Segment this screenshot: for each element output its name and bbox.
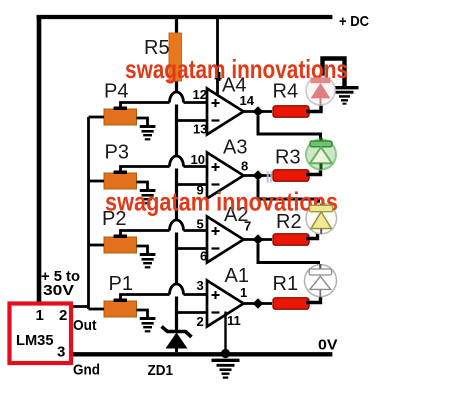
wire left supply rail <box>37 15 42 302</box>
svg-text:2: 2 <box>59 307 67 324</box>
ghost watermark fragment <box>267 171 272 182</box>
wire P1 wiper to pin 3 with hop <box>121 295 208 301</box>
svg-text:1: 1 <box>240 285 247 300</box>
LED D2 green <box>306 138 336 170</box>
svg-text:Gnd: Gnd <box>73 362 100 379</box>
wire A3 junction to LED3 top <box>258 180 319 205</box>
wire A2 output <box>244 238 273 241</box>
junction A3 output <box>253 170 263 180</box>
svg-text:swagatam innovations: swagatam innovations <box>105 187 338 217</box>
resistor R2 <box>273 234 309 246</box>
svg-text:R3: R3 <box>275 147 301 169</box>
wire R3 to LED2 <box>306 169 321 175</box>
preset P1 <box>104 299 137 318</box>
ground top right <box>331 88 359 104</box>
svg-text:3: 3 <box>57 344 65 361</box>
wire P4 left to rail <box>89 116 105 119</box>
svg-text:ZD1: ZD1 <box>148 362 174 379</box>
svg-text:LM35: LM35 <box>16 332 54 349</box>
wire P3 right to ground <box>137 182 148 189</box>
resistor R3 <box>273 170 309 182</box>
svg-text:11: 11 <box>227 313 241 328</box>
svg-text:P3: P3 <box>105 142 129 164</box>
op-amp A1 <box>207 281 244 327</box>
wire 0V rail <box>70 352 332 356</box>
resistor R4 <box>273 106 309 118</box>
wire pin 11 to 0V <box>224 312 226 353</box>
wire A4 junction to LED2 top <box>258 116 321 140</box>
resistor R1 <box>273 298 309 310</box>
svg-text:+ DC: + DC <box>339 13 369 30</box>
resistor R5 <box>169 33 182 81</box>
junction pin11 on 0V <box>221 349 230 358</box>
svg-text:10: 10 <box>191 152 205 167</box>
op-amp A3 <box>207 153 244 199</box>
LED D3 yellow bar over watermark <box>310 205 333 211</box>
wire A4 output <box>244 110 273 113</box>
wire A1 output <box>244 302 273 305</box>
wire P1 left to rail <box>89 308 105 311</box>
svg-text:A1: A1 <box>225 265 249 287</box>
wire hop arc over rail <box>170 156 184 167</box>
svg-text:Out: Out <box>73 317 97 334</box>
preset P3 <box>104 171 137 190</box>
junction A2 output <box>253 234 263 244</box>
wire pin 2 from rail <box>177 311 208 314</box>
preset P2 <box>104 235 137 254</box>
zener ZD1 <box>162 327 192 353</box>
wire hop arc over rail <box>170 92 184 103</box>
wire +DC top rail <box>37 15 333 19</box>
ground P4 <box>140 127 156 140</box>
wire op-amp pin 4 supply line <box>216 19 219 94</box>
ground P2 <box>140 255 156 268</box>
LED D4 white <box>305 264 337 297</box>
LED D1 red internals over watermark <box>311 78 331 99</box>
wire reference rail (R5 / zener chain) <box>175 17 178 331</box>
wire P2 left to rail <box>89 244 105 247</box>
wire LM35 out rail (presets left rail) <box>87 117 90 309</box>
svg-text:P1: P1 <box>109 273 133 295</box>
junction A4 output <box>253 106 263 116</box>
wire P2 right to ground <box>137 246 148 253</box>
op-amp A2 <box>207 217 244 263</box>
svg-text:0V: 0V <box>318 337 338 354</box>
preset P4 <box>104 107 137 126</box>
ground below 0V rail <box>212 360 240 377</box>
ground P1 <box>140 319 156 332</box>
wire R2 to LED3 <box>306 233 318 239</box>
LED D1 red <box>306 76 335 105</box>
wire P4 right to ground <box>137 118 148 125</box>
wire R1 to LED4 <box>306 296 321 303</box>
op-amp A4 <box>207 89 244 135</box>
svg-text:12: 12 <box>193 87 207 102</box>
wire A2 junction to LED4 top <box>258 244 319 269</box>
svg-text:A3: A3 <box>223 137 247 159</box>
junction A1 output <box>253 298 263 308</box>
wire pin 9 from rail <box>177 183 208 186</box>
wire pin 6 from rail <box>177 247 208 250</box>
svg-text:30V: 30V <box>43 282 74 299</box>
wire P3 wiper to pin 10 with hop <box>121 167 208 173</box>
svg-text:3: 3 <box>197 278 204 293</box>
svg-text:5: 5 <box>197 217 204 232</box>
LED D3 yellow <box>306 203 337 234</box>
svg-text:8: 8 <box>241 159 248 174</box>
svg-text:R1: R1 <box>273 273 299 295</box>
wire pin 13 from rail <box>177 119 208 122</box>
wire A3 output <box>244 174 273 177</box>
wire P2 wiper to pin 5 with hop <box>121 231 208 237</box>
wire P3 left to rail <box>89 180 105 183</box>
wire P1 right to ground <box>137 310 148 317</box>
wire hop arc over rail <box>170 220 184 231</box>
wire hop arc over rail <box>170 284 184 295</box>
wire LED1 top to ground <box>323 59 345 87</box>
LM35 sensor box <box>10 304 72 364</box>
svg-text:13: 13 <box>193 122 207 137</box>
svg-text:2: 2 <box>197 314 204 329</box>
wire P4 wiper to pin 12 with hop <box>121 103 208 109</box>
ground P3 <box>140 191 156 204</box>
svg-text:1: 1 <box>36 307 44 324</box>
wire LM35 Out pin <box>70 305 89 308</box>
wire R4 to LED1 <box>306 105 321 112</box>
